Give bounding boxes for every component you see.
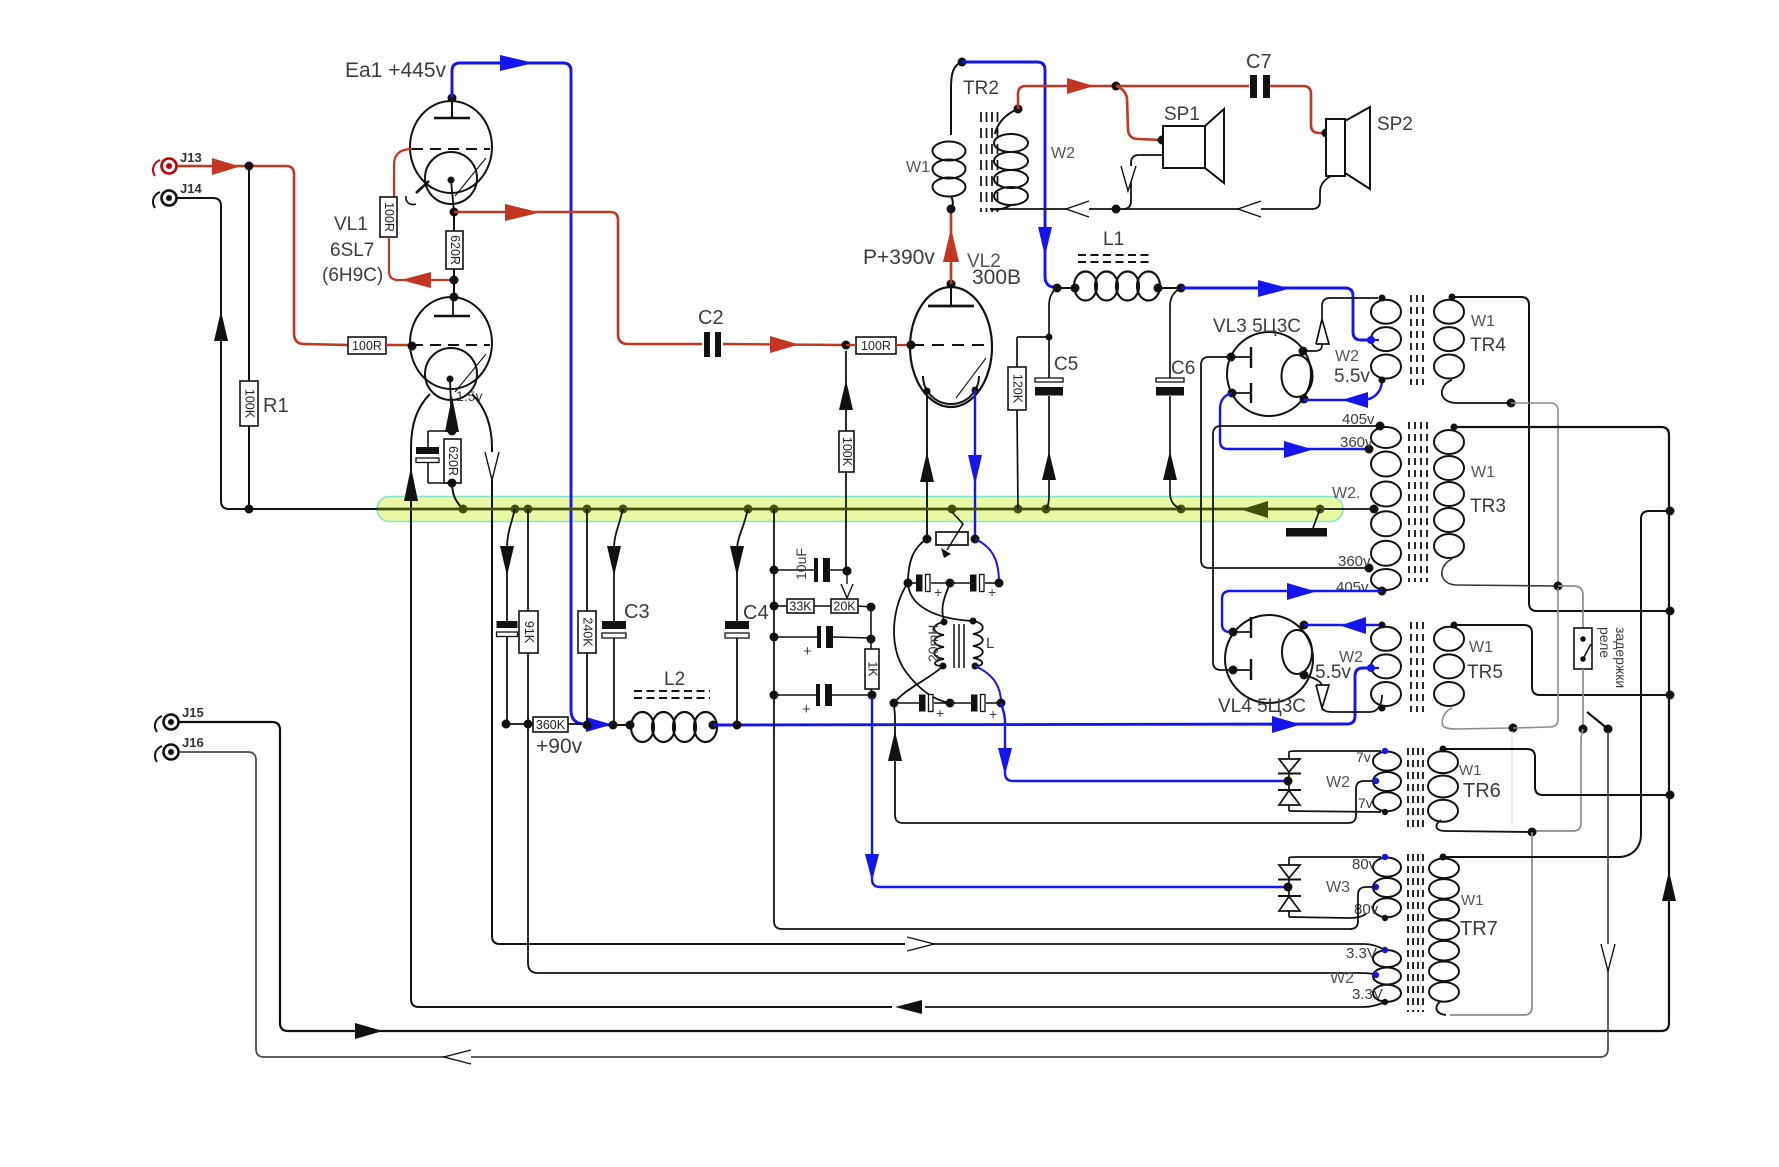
triode VL1b (lower half of 6SL7): [410, 297, 492, 400]
TR4 primary W1: [1434, 294, 1464, 379]
svg-text:6SL7: 6SL7: [330, 240, 374, 261]
svg-text:L1: L1: [1103, 229, 1124, 250]
wire TR7 W3 centre tap to return line: [1350, 887, 1376, 929]
TR6 heater winding W2 7v-0-7v: [1373, 748, 1401, 815]
choke L1: [1053, 229, 1186, 301]
label VL2 300B: [967, 251, 1021, 289]
crossing wire top-centre to left coil: [942, 583, 950, 621]
wire TR6 W1 bottom: [1436, 820, 1536, 837]
wire TR7 3.3V top to VL1 heater: [907, 937, 1385, 951]
cathode network capacitor (x507 chain) with arrow: [497, 509, 529, 729]
svg-text:80v: 80v: [1352, 856, 1377, 873]
label VL1 6SL7 (6Н9С): [322, 214, 383, 286]
wire VL4 filament to TR5 5.5v winding top (blue): [1304, 617, 1382, 634]
resistor R1 100K (input grid leak): [240, 162, 289, 510]
capacitor 10uF: [774, 548, 852, 582]
label P+390v: [863, 246, 935, 269]
cathode resistor 620R of VL1b: [444, 439, 463, 509]
speaker return wire SP1: [1121, 155, 1163, 209]
input jack J13: [153, 150, 202, 176]
VL1 heater leg left (to TR7 3.3V winding): [404, 394, 892, 1007]
svg-text:360v: 360v: [1340, 434, 1373, 451]
speaker SP1: [1163, 104, 1224, 183]
bias electrolytic capacitor upper: [774, 626, 876, 660]
svg-text:C5: C5: [1054, 354, 1078, 375]
svg-text:W1: W1: [1461, 892, 1484, 909]
TR7 core: [1408, 854, 1423, 1012]
filament filter capacitor bottom-right: [950, 695, 1006, 723]
capacitor C2 (coupling): [698, 307, 724, 357]
VL2 filament leg right (blue): [968, 390, 982, 538]
svg-text:+: +: [803, 643, 812, 660]
svg-text:W2: W2: [1326, 774, 1350, 791]
svg-text:W1: W1: [1471, 464, 1495, 481]
delay relay (реле задержки): [1558, 586, 1629, 688]
svg-text:360v: 360v: [1338, 553, 1371, 570]
svg-text:620R: 620R: [446, 446, 460, 476]
wire VL3 anode lower to 360v tap (upper, blue): [1220, 393, 1366, 458]
svg-text:100R: 100R: [352, 339, 382, 353]
power tube VL2 300B: [910, 280, 992, 408]
wire C3 node to L2: [613, 721, 635, 730]
cathode stem of VL1b with arrow: [445, 379, 459, 436]
labels W2 5.5v (TR5): [1315, 649, 1363, 683]
svg-text:3.3V: 3.3V: [1352, 986, 1383, 1003]
speaker return wire SP2: [990, 176, 1331, 217]
svg-text:1K: 1K: [866, 661, 880, 677]
wire J14 to ground bus: [177, 198, 378, 509]
bias electrolytic capacitor lower: [774, 684, 872, 718]
svg-text:20mH: 20mH: [925, 625, 941, 662]
TR5 heater winding W2 5.5v: [1371, 622, 1401, 712]
svg-text:+90v: +90v: [536, 735, 583, 758]
faint stub below TR5 node: [1511, 731, 1513, 824]
svg-text:5.5v: 5.5v: [1334, 366, 1370, 387]
svg-text:240K: 240K: [581, 617, 595, 647]
svg-text:Ea1 +445v: Ea1 +445v: [345, 59, 447, 82]
triode VL1a (upper half of 6SL7): [406, 94, 492, 213]
wire TR6 bottom to TR7 W1 bottom: [1436, 832, 1532, 1015]
svg-text:J15: J15: [182, 705, 204, 720]
labels W1 TR3: [1470, 464, 1506, 517]
filament filter capacitor top-right: [950, 575, 999, 601]
svg-text:TR2: TR2: [963, 78, 999, 99]
svg-text:TR3: TR3: [1470, 496, 1506, 517]
wire switch to TR6 W1 bottom: [1535, 729, 1583, 831]
diode pair of bias supply (TR7): [1278, 858, 1301, 917]
svg-text:+: +: [802, 701, 811, 718]
svg-text:+: +: [988, 584, 996, 600]
svg-text:100R: 100R: [861, 339, 891, 353]
svg-text:L: L: [986, 635, 994, 652]
TR4 5.5v centre tap (B+ takeoff): [1367, 336, 1379, 344]
cathode bypass capacitor of VL1b: [416, 431, 452, 483]
ground symbol: [1286, 509, 1327, 537]
svg-text:TR4: TR4: [1470, 335, 1506, 356]
TR5 5.5v centre tap (B+ takeoff): [1367, 664, 1379, 672]
svg-text:W1: W1: [906, 159, 930, 176]
crossing wire top-left to right coil: [908, 583, 973, 621]
filament choke 20mH (common-mode): [925, 618, 994, 670]
svg-text:P+390v: P+390v: [863, 246, 935, 269]
resistor 240K (bleeder): [578, 509, 596, 725]
svg-text:L2: L2: [664, 669, 685, 690]
wire bus to bias network vertical and to TR7 W3 centre tap: [770, 509, 1353, 929]
svg-text:J14: J14: [180, 181, 202, 196]
wire TR5 W1 top to mains node: [1454, 625, 1666, 695]
wire +90v node down to TR7 heater-winding centre tap: [528, 724, 1376, 975]
trimmer 20K: [814, 599, 876, 614]
svg-text:C6: C6: [1171, 358, 1195, 379]
svg-text:+: +: [934, 584, 942, 600]
mains wire J16 to switch: [179, 732, 1615, 1064]
svg-text:SP2: SP2: [1377, 114, 1413, 135]
wire relay to switch: [1582, 669, 1584, 726]
capacitor C6: [1156, 288, 1195, 509]
svg-text:W1: W1: [1459, 762, 1482, 779]
wire 405v bottom tap to VL4 anode (blue): [1222, 583, 1382, 632]
svg-text:100R: 100R: [382, 202, 396, 232]
mains wire J15 to transformer primaries: [179, 427, 1676, 1039]
resistor 1K: [865, 607, 880, 700]
wire diodes to TR6 W2 ends: [1289, 751, 1381, 812]
TR2 core: [981, 112, 998, 212]
TR7 bias winding W3 80v-0-80v: [1373, 854, 1401, 921]
label 1.5v: [456, 388, 482, 404]
resistor 100R (VL1 lower grid stopper): [348, 337, 386, 354]
blue wire L1 to VL3 cathode winding (B+): [1181, 280, 1369, 340]
svg-text:W1: W1: [1471, 313, 1495, 330]
resistor 91K (divider lower leg): [519, 509, 538, 729]
labels W1 TR4: [1470, 313, 1506, 356]
hum balance potentiometer: [936, 512, 968, 558]
wire pot-left to filter node: [904, 535, 932, 588]
svg-text:620R: 620R: [448, 235, 462, 265]
svg-text:+: +: [989, 706, 997, 722]
red wire C7 to SP2: [1270, 86, 1331, 138]
resistor 360K (divider upper leg): [533, 717, 592, 732]
wire VL3 anode upper to 360v tap (lower): [1201, 357, 1366, 568]
filament DC return wire to TR6 W2 centre tap: [888, 703, 1376, 823]
wire Ea1 +445v blue rail (VL1 anode to +445 node): [452, 55, 612, 732]
VL1 heater leg right (to TR7 3.3V winding): [472, 394, 905, 944]
wiper arrow into 20K trimmer: [841, 575, 853, 598]
svg-text:TR7: TR7: [1460, 918, 1498, 940]
TR6 core: [1408, 748, 1423, 830]
output transformer TR2 primary W1: [906, 58, 967, 214]
svg-text:TR5: TR5: [1467, 662, 1503, 683]
svg-text:(6Н9С): (6Н9С): [322, 265, 383, 286]
bias feed wire (blue) to TR7 W3 rectifier centre: [865, 698, 1285, 887]
rectifier tube VL3 5Ц3С: [1213, 316, 1313, 416]
input jack J15: [155, 705, 204, 732]
svg-text:C4: C4: [743, 602, 769, 624]
label Ea1 +445v: [345, 59, 447, 82]
TR2 secondary W2: [990, 105, 1075, 210]
wire right coil to bottom-right node (blue): [975, 666, 1001, 703]
svg-text:5.5v: 5.5v: [1315, 662, 1351, 683]
svg-text:TR6: TR6: [1463, 780, 1501, 802]
svg-text:W1: W1: [1469, 639, 1493, 656]
capacitor C7: [1246, 51, 1272, 98]
ground bus highlight (green marker): [377, 497, 1343, 522]
svg-text:C2: C2: [698, 307, 724, 329]
svg-text:91K: 91K: [522, 621, 536, 644]
labels TR3 HV taps: [1332, 411, 1375, 596]
labels W2 5.5v (TR4): [1334, 348, 1370, 387]
resistor 620R (SRPP middle, VL1): [446, 208, 463, 302]
svg-text:VL4 5Ц3С: VL4 5Ц3С: [1218, 696, 1306, 717]
svg-text:реле: реле: [1597, 627, 1613, 658]
labels 7v W2 7v (TR6): [1326, 749, 1373, 811]
svg-text:C3: C3: [624, 601, 650, 623]
wire diodes to TR7 W3 ends: [1289, 857, 1381, 918]
svg-text:300B: 300B: [972, 266, 1021, 289]
blue wire TR2 primary top to L1 node: [962, 62, 1053, 287]
svg-text:7v: 7v: [1358, 795, 1373, 811]
svg-text:C7: C7: [1246, 51, 1272, 73]
red wire branch to SP1: [1116, 86, 1167, 145]
wire J13 to grid of VL1 (red input wire): [177, 158, 348, 345]
capacitor C4 (filter): [725, 509, 769, 725]
label +90v: [536, 735, 583, 758]
wire TR4 W1 top to mains node: [1452, 297, 1666, 611]
svg-text:W2: W2: [1335, 348, 1359, 365]
resistor 100R (VL2 grid stopper): [846, 337, 916, 354]
diode pair of VL2-filament supply (TR6): [1278, 752, 1301, 811]
labels 3.3V W2 3.3V (TR7): [1330, 945, 1383, 1003]
filament filter capacitor bottom-left: [890, 695, 955, 722]
choke L2: [631, 669, 718, 742]
svg-text:J16: J16: [182, 735, 204, 750]
svg-text:120K: 120K: [1011, 374, 1025, 404]
TR7 primary W1: [1429, 854, 1459, 1002]
wire VL3 filament to TR4 5.5v winding bottom (blue): [1304, 380, 1382, 408]
svg-text:SP1: SP1: [1164, 104, 1200, 125]
ground bus line: [377, 501, 1374, 518]
wire 405v top tap to VL4 anode: [1213, 426, 1380, 670]
svg-text:20K: 20K: [833, 600, 856, 614]
wire TR3 W1 bottom to relay node: [1442, 559, 1563, 591]
svg-text:W2.: W2.: [1332, 485, 1360, 502]
svg-text:J13: J13: [180, 150, 202, 165]
svg-text:3.3V: 3.3V: [1346, 945, 1377, 962]
svg-text:405v: 405v: [1336, 579, 1369, 596]
wire TR5 W1 bottom to relay node: [1442, 588, 1558, 733]
svg-text:100K: 100K: [243, 389, 257, 419]
TR6 primary W1: [1428, 746, 1458, 822]
TR4 core: [1411, 295, 1423, 385]
svg-text:10uF: 10uF: [793, 548, 809, 580]
svg-text:360K: 360K: [536, 718, 566, 732]
svg-text:W2: W2: [1051, 145, 1075, 162]
capacitor C5 with 120K bleeder tap: [1035, 288, 1078, 509]
filament DC positive wire (blue) to TR6 rectifier: [998, 703, 1285, 781]
TR3 primary W1: [1434, 424, 1464, 559]
TR3 HV winding W2 (405-360-0-360-405): [1365, 422, 1402, 596]
TR3 core: [1409, 422, 1427, 582]
labels 80v W3 80v (TR7): [1326, 856, 1379, 918]
input jack J14: [153, 181, 202, 208]
wire C2 to 100R (red): [723, 336, 851, 353]
capacitor C3 (filter): [602, 509, 650, 730]
labels W1 TR5: [1467, 639, 1503, 683]
TR5 primary W1: [1434, 622, 1464, 707]
TR5 core: [1411, 622, 1423, 712]
svg-text:VL1: VL1: [334, 214, 368, 235]
red wire TR2 secondary to speakers: [1018, 78, 1249, 109]
wire 100R to VL1 grid: [386, 342, 417, 351]
speaker SP2: [1326, 107, 1413, 189]
wire TR4 W1 bottom to relay node: [1442, 380, 1558, 583]
resistor 120K: [1008, 337, 1049, 509]
svg-text:+: +: [936, 705, 944, 721]
wire VL4 filament to TR5 5.5v winding bottom: [1304, 675, 1382, 712]
grid leak 100K of VL2: [839, 351, 854, 576]
filament filter capacitor top-left: [908, 575, 955, 601]
anode resistor 100R of VL1a (grid feed): [380, 149, 450, 288]
VL2 filament leg left: [920, 391, 934, 539]
blue +445 rail wire (L2/C4 node to VL4 rectifier output): [713, 668, 1371, 733]
wire pot-right to filter node (blue): [971, 535, 1004, 588]
svg-text:100K: 100K: [840, 437, 854, 467]
svg-text:R1: R1: [263, 395, 289, 417]
svg-text:задержки: задержки: [1613, 627, 1629, 688]
label TR2: [963, 78, 999, 99]
labels W1 TR7: [1460, 892, 1498, 940]
crossing wire top-left node to bottom-centre node: [894, 583, 950, 703]
input jack J16: [155, 735, 204, 762]
wire TR7 3.3V bottom to VL1 heater: [895, 1000, 1385, 1014]
TR4 heater winding W2 5.5v: [1371, 295, 1401, 384]
resistor 33K: [774, 599, 814, 614]
wire TR6 W1 top to mains node: [1443, 749, 1666, 795]
svg-text:W2: W2: [1330, 970, 1354, 987]
labels W1 TR6: [1459, 762, 1501, 802]
rectifier tube VL4 5Ц3С: [1218, 615, 1313, 717]
svg-text:W3: W3: [1326, 879, 1350, 896]
bus junction dots: [245, 505, 1325, 514]
anode wire of VL2 to TR2 (red, P+390v): [943, 213, 959, 284]
mains switch contact: [1579, 712, 1613, 734]
svg-text:VL3 5Ц3С: VL3 5Ц3С: [1213, 316, 1301, 337]
TR7 heater winding W2 3.3V-0-3.3V: [1373, 947, 1401, 1005]
svg-text:7v: 7v: [1356, 749, 1371, 765]
wire TR7 W1 top to mains node: [1443, 511, 1666, 857]
wire VL1 output to C2 (red): [454, 204, 702, 344]
wire VL3 filament to TR4 5.5v winding top: [1303, 298, 1378, 351]
svg-text:33K: 33K: [789, 600, 812, 614]
crossing wire left coil to bottom-left node: [894, 666, 943, 703]
